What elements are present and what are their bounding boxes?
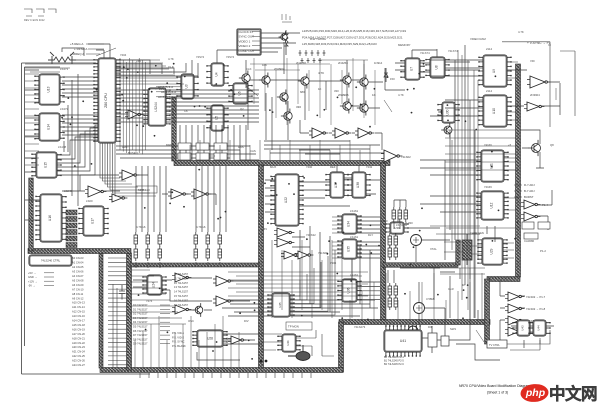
svg-text:L2/P25,D26,P26,D30,M26,D14,L26: L2/P25,D26,P26,D30,M26,D14,L26,D15,M25,D… [302,29,406,33]
svg-text:U8: U8 [435,65,439,69]
transistor Q9 [239,70,250,85]
svg-text:U34: U34 [347,221,351,227]
gate U20 [125,110,143,119]
oscillator X1 circle [411,235,422,246]
IC U36 [337,279,361,302]
connector CN1 rows [28,271,54,288]
gate U42C [505,316,524,325]
inverter U19B [119,170,139,180]
IC U28 [192,330,227,347]
svg-text:VIDEO 1: VIDEO 1 [239,39,251,43]
IC U45 [267,293,294,317]
svg-text:A17 CN-20: A17 CN-20 [72,332,85,336]
svg-text:+5V: +5V [262,227,267,231]
IC U34 [337,214,361,234]
wire gate links mid-left [62,175,148,191]
wire U41 top pins to bus [386,325,420,327]
svg-text:74LS02: 74LS02 [401,155,411,159]
bus H4 left horizontal [28,249,131,254]
IC U17 decoder [78,206,108,236]
watermark php logo [520,383,549,403]
bus V10 riser to CRTC [456,240,461,265]
gate U42A [505,292,524,301]
wire bundle left ICs to CPU (mid) [62,115,98,135]
wire bundle mid horizontals [116,146,256,158]
svg-text:74LS02 → P1-8: 74LS02 → P1-8 [526,307,546,311]
IC U30 small [437,102,459,123]
gate U26A [213,276,233,286]
svg-text:7432: 7432 [366,165,373,169]
speaker symbol LS1 [288,345,310,361]
wire U28 links [197,334,262,360]
svg-text:Q2: Q2 [240,107,244,111]
IC U39 [385,222,408,234]
text rows bottom-left block [133,303,148,346]
gate U47 bottom [228,336,246,344]
svg-text:B-Y ADJ: B-Y ADJ [524,189,535,193]
wire bottom middle mesh v [272,240,352,318]
labels top mid [156,85,182,99]
svg-text:A8 CN-11: A8 CN-11 [72,292,84,296]
svg-text:+5V →: +5V → [28,271,36,275]
signal labels near CPU top [70,42,174,91]
components right of U41 [428,326,449,353]
box TV control [487,340,507,348]
svg-text:12 74LS157: 12 74LS157 [174,281,189,285]
text rows right of U24 [174,272,189,307]
svg-text:LS244: LS244 [154,102,158,111]
svg-text:A0 CN-03: A0 CN-03 [72,256,84,260]
svg-text:D7 74LS157: D7 74LS157 [133,333,148,337]
wire long horizontals upper [25,70,40,220]
svg-text:U3: U3 [185,84,189,88]
svg-text:A5 CN-08: A5 CN-08 [72,278,84,282]
svg-text:WAIT: WAIT [122,145,129,149]
bus V2 joint vertical [339,322,344,372]
svg-text:LS74: LS74 [396,223,403,227]
svg-text:17 74LS157: 17 74LS157 [174,303,189,307]
left border wires [22,63,151,374]
svg-text:U24: U24 [152,282,156,288]
wire connector leads [261,33,300,52]
svg-text:CLR: CLR [448,287,454,291]
wire crystal to CPU [62,48,98,60]
wire CN2 leader lines [108,258,127,365]
wire bundle across top of H1 [264,141,385,153]
svg-text:7474: 7474 [146,299,153,303]
svg-text:D5 74LS157: D5 74LS157 [133,325,148,329]
wire U45 fan right [290,250,335,315]
transistor Q13 [438,105,449,119]
svg-text:A18 CN-21: A18 CN-21 [72,336,85,340]
wire U29 area links [444,228,520,258]
transistor Q8 [281,108,292,123]
flip-flop U5 [206,105,228,131]
svg-text:P.S. VID-1: P.S. VID-1 [172,331,184,335]
flip-flop U4 [206,63,228,86]
wire RN3 links [394,200,406,229]
wire U22 links [265,180,350,247]
bus V7 far-left vertical [29,178,34,251]
svg-text:74LS273: 74LS273 [354,325,366,329]
svg-text:1K: 1K [462,283,466,287]
label cluster right mid [514,183,535,199]
resistor stack RS1 [66,210,77,248]
svg-text:GND →: GND → [28,275,37,279]
svg-text:P.S. VID-2: P.S. VID-2 [172,335,184,339]
svg-text:A1 CN-04: A1 CN-04 [72,261,84,265]
IC U10 video RAM [478,95,511,127]
IC U43 small [512,320,534,336]
junction dots scatter [61,63,518,360]
IC U44 small [528,320,550,336]
svg-text:+ MREQ A: + MREQ A [70,52,84,56]
wire U34-36 left taps [332,217,342,258]
svg-text:VID: VID [530,59,535,63]
IC U13 latch [34,74,64,105]
text rows under U28 [172,331,186,348]
wire osc links [388,216,455,330]
svg-text:LS373: LS373 [60,67,69,71]
svg-text:4.7K: 4.7K [318,71,324,75]
wire bundle CPU to U2 [116,90,148,122]
bus V8 mid-upper vertical [172,97,177,161]
wire transistor links [250,42,383,140]
wire U7 U8 links [395,49,480,72]
IC U37 [325,172,348,198]
svg-text:A14 CN-17: A14 CN-17 [72,319,85,323]
wire RN1 drops from bus [136,166,166,232]
flip-flop U6 [228,83,252,104]
bus H1 top horizontal [174,161,390,166]
wire far right edge [548,45,556,100]
svg-text:U44: U44 [537,325,541,331]
svg-text:php: php [525,387,546,399]
svg-text:LS161: LS161 [350,209,359,213]
svg-text:U17: U17 [91,218,95,224]
inverter U18C [355,128,374,138]
svg-text:A21 CN-24: A21 CN-24 [72,350,85,354]
inverter U19C [109,194,127,202]
transistor Q2 [298,73,309,88]
IC U24 [142,275,166,295]
resistor network RN1 [134,232,162,261]
wire right mid links [537,190,552,230]
svg-text:U7: U7 [410,67,414,71]
wire RN2 drops from bus [196,166,226,232]
wire right edge extras [504,62,518,210]
svg-text:330: 330 [296,105,301,109]
wire U37 U38 links [337,165,380,194]
wire bundle U2 to center bus [166,90,259,122]
flip-flop U8 [425,57,449,78]
svg-text:U12: U12 [490,202,494,208]
wire bottom middle mesh h [228,272,368,296]
svg-text:DIV: DIV [244,319,249,323]
IC U16 buffer [35,194,66,242]
svg-text:A16 CN-19: A16 CN-19 [72,327,85,331]
svg-text:150: 150 [390,77,395,81]
svg-text:Q8: Q8 [550,143,554,147]
svg-text:D4 74LS157: D4 74LS157 [133,320,148,324]
svg-text:BURST: BURST [524,195,534,199]
wire left border taps dense [25,74,39,165]
svg-text:U45: U45 [278,302,282,308]
svg-text:14 74LS157: 14 74LS157 [174,290,189,294]
wire vsync lead [502,42,575,127]
connector CN1 box [29,255,72,266]
wire bundle left ICs to CPU (upper) [62,77,98,97]
svg-text:OSC: OSC [188,319,194,323]
amp U23A [274,228,294,237]
IC U22 character ROM [270,174,303,226]
scattered tiny labels [58,30,554,331]
svg-text:A9 CN-12: A9 CN-12 [72,296,84,300]
svg-text:TP MON: TP MON [288,325,299,329]
svg-text:14.318: 14.318 [426,265,435,269]
svg-text:4.7K: 4.7K [398,93,404,97]
svg-text:1N914: 1N914 [374,61,383,65]
wire top mid horizontals [250,60,368,70]
svg-text:U30: U30 [446,109,450,115]
amp U31 video out [527,76,550,88]
wire bundle center-bottom horizontals [222,300,378,316]
small parts right 220-240 [522,222,550,239]
svg-text:10K: 10K [262,63,267,67]
svg-text:U6: U6 [238,91,242,95]
gate U42D [505,327,524,336]
svg-text:74LS74: 74LS74 [420,51,430,55]
svg-text:U43: U43 [521,325,525,331]
wire upper H1 drops [180,140,370,161]
svg-text:TV CTRL: TV CTRL [489,343,500,347]
svg-text:U4: U4 [215,72,219,76]
IC U14 latch [34,113,64,141]
svg-text:D1 74LS157: D1 74LS157 [133,307,148,311]
gate U32 [524,102,544,111]
svg-text:+5V: +5V [136,59,141,63]
svg-text:16 74LS157: 16 74LS157 [174,298,189,302]
svg-text:P.S. BLANK: P.S. BLANK [172,344,186,348]
IC U40 hatched pack [462,234,472,265]
wire pair x114 [113,284,117,368]
IC U15 latch [31,152,61,178]
svg-text:A7 CN-10: A7 CN-10 [72,287,84,291]
gate U33A [521,200,540,209]
svg-text:-5V →: -5V → [28,284,36,288]
svg-text:COMP OUT: COMP OUT [239,49,255,53]
bus V3 left vertical [127,253,132,370]
svg-text:+5 REG A: +5 REG A [70,42,83,46]
IC U11 shift register [476,150,508,182]
IC U35 [337,239,361,259]
transistor Q10 small [279,31,288,43]
transistor Q3 [340,72,351,87]
inverter U19A [85,186,106,197]
legend marks top-left [24,9,56,16]
svg-text:U38: U38 [356,182,360,188]
svg-text:A4 CN-07: A4 CN-07 [72,274,84,278]
op-amp U18D [381,150,402,162]
bus H5 right jog horizontal [487,277,520,282]
IC U29 CRTC [477,238,507,265]
wire right block verticals [452,50,478,318]
connector J1 box [237,29,261,55]
transistor Q11 [193,303,203,317]
svg-text:74LS74: 74LS74 [448,49,458,53]
svg-text:U35: U35 [347,246,351,252]
svg-text:SYNC OUT: SYNC OUT [239,35,255,39]
gate U33B [521,212,540,221]
svg-text:330: 330 [334,89,339,93]
svg-text:DIP: DIP [428,325,433,329]
svg-text:U28: U28 [207,337,213,341]
IC U1 CPU Z80 [93,58,120,143]
wire long verticals left [64,74,78,206]
wire bottom links right [422,322,500,360]
svg-text:CLK: CLK [246,67,252,71]
junction dots bottom [260,360,268,363]
gate U27 [172,305,191,314]
svg-text:7406: 7406 [330,261,337,265]
svg-text:2N3904: 2N3904 [530,93,540,97]
bus V3a inner-left vertical [99,253,103,368]
svg-text:SW1: SW1 [450,327,457,331]
svg-text:A13 CN-16: A13 CN-16 [72,314,85,318]
connector CN2 row labels [72,256,85,367]
wire left lower mesh [131,270,186,324]
wire staircase left IC3 to CPU [57,125,98,175]
svg-text:A20 CN-23: A20 CN-23 [72,345,85,349]
wire right column horizontals [420,60,483,212]
svg-text:A2 CN-05: A2 CN-05 [72,265,84,269]
svg-text:CK: CK [184,109,188,113]
wire top mid runs [192,50,260,88]
svg-text:CHAR GEN: CHAR GEN [470,231,484,235]
svg-text:A22 CN-25: A22 CN-25 [72,354,85,358]
svg-text:P.S. SYNC: P.S. SYNC [172,340,185,344]
svg-text:150pF: 150pF [380,219,388,223]
svg-text:3.58M: 3.58M [426,297,434,301]
svg-text:U13: U13 [47,86,51,92]
svg-text:LS245: LS245 [64,189,73,193]
svg-text:2N4258: 2N4258 [338,61,348,65]
svg-text:A6 CN-09: A6 CN-09 [72,283,84,287]
labels transistor area [274,67,376,109]
wire border top taps [25,64,98,72]
bus H2 lower-right horizontal [339,320,490,325]
svg-text:P1-2: P1-2 [540,249,546,253]
svg-text:2N4258: 2N4258 [296,61,306,65]
wire right-to-left long runs [248,92,272,150]
svg-text:680: 680 [300,90,305,94]
resistor R30 vertical [284,30,288,55]
svg-text:13 74LS157: 13 74LS157 [174,285,189,289]
svg-text:CLK: CLK [168,65,174,69]
gate cluster AND pair [281,251,299,259]
wire V-SYNC line [507,70,560,115]
svg-text:11 74LS157: 11 74LS157 [174,276,188,280]
svg-text:2N3904: 2N3904 [274,67,285,71]
labels right lower gates [526,295,546,323]
svg-text:15 74LS157: 15 74LS157 [174,294,189,298]
inverter U21B [191,189,211,199]
svg-text:D0 74LS157: D0 74LS157 [133,303,148,307]
oscillator X3 circle [408,326,418,336]
wire lower right diag runs [460,226,495,322]
IC U12 shift register [476,191,508,220]
svg-text:U14: U14 [47,124,51,130]
wire CPU top runs [88,44,110,58]
svg-text:REV C ECN 4012: REV C ECN 4012 [24,18,45,22]
text rows under U41 [384,356,404,366]
inverter U18B [332,128,351,138]
connector J1 rows [239,30,261,53]
wire gate column links [500,280,525,340]
svg-text:CA3086: CA3086 [524,239,535,243]
svg-text:+ RFSH A: + RFSH A [74,47,87,51]
resistor network RN2 [194,232,222,261]
IC U9 video RAM [478,55,511,87]
svg-text:A19 CN-22: A19 CN-22 [72,341,85,345]
svg-text:LS161: LS161 [350,235,359,239]
svg-text:74S74: 74S74 [196,55,205,59]
transistor Q6 [357,100,368,115]
transistor Q12 [528,140,540,156]
svg-text:B2 74LS245 P2-6: B2 74LS245 P2-6 [384,363,404,366]
crystal Y1 [48,52,76,64]
bus V6 right-lower vertical [485,279,490,344]
inverter U25 [172,273,191,282]
wire stubs below bottom bus [140,373,311,378]
svg-text:U9: U9 [492,69,496,73]
transistor Q7 [277,89,288,104]
svg-text:(Sheet 1 of 3): (Sheet 1 of 3) [487,391,508,395]
svg-text:LS373: LS373 [60,107,69,111]
svg-text:2114: 2114 [486,47,492,51]
svg-text:VIDEO RAM: VIDEO RAM [470,37,486,41]
svg-text:U22: U22 [284,197,288,203]
wire bundle below CPU [100,143,156,196]
svg-text:74S74: 74S74 [226,55,235,59]
resistor network RN4 [388,233,398,260]
transistor Q14 [441,123,452,137]
wire mid-right long runs [240,68,405,160]
svg-text:4.7K: 4.7K [518,30,524,34]
svg-text:U46: U46 [286,340,290,346]
svg-text:CAS: CAS [250,149,256,153]
svg-text:74LS240 CTRL: 74LS240 CTRL [41,259,61,263]
svg-text:LS138: LS138 [58,145,67,149]
svg-text:U41: U41 [400,339,406,343]
wire loop bottom right [507,330,550,350]
bus H6 small lower horizontal [130,263,259,267]
oscillator X2 circle [414,303,425,314]
svg-text:U29: U29 [490,248,494,254]
wire room bottom mesh [262,330,334,356]
wire right block horizontals [430,130,516,274]
svg-text:MREQ: MREQ [166,143,175,147]
svg-text:4.7K: 4.7K [168,57,174,61]
wire bundle center-bottom verticals [300,226,370,312]
svg-text:U16: U16 [48,215,52,221]
svg-text:A23 CN-26: A23 CN-26 [72,359,85,363]
svg-text:L25,M28,N28,D33,P29,D34,M29,D3: L25,M28,N28,D33,P29,D34,M29,D35,N29,D22,… [302,42,377,46]
svg-text:LS161: LS161 [350,273,359,277]
svg-text:7400: 7400 [306,165,313,169]
svg-text:NR70 CPU/Video Board Modificat: NR70 CPU/Video Board Modification Diagra… [459,384,530,388]
wire top mid verticals [254,58,375,125]
